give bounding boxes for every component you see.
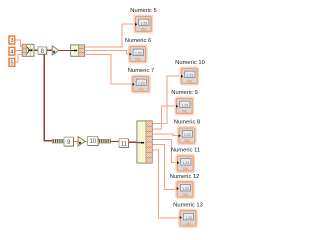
svg-text:10: 10 bbox=[89, 139, 96, 145]
svg-text:4: 4 bbox=[10, 49, 13, 55]
wire: unbundle out 1 to Numeric 5 bbox=[84, 24, 134, 47]
wire: probe 8 to triangle (dark red) bbox=[47, 49, 53, 51]
probe 9 bbox=[64, 137, 74, 146]
indicator Numeric 13 bbox=[173, 203, 203, 228]
svg-text:1.23: 1.23 bbox=[140, 22, 147, 26]
svg-text:DBL: DBL bbox=[184, 139, 190, 143]
wire: U2 row5 to Numeric 12 bbox=[152, 145, 176, 190]
svg-text:1.23: 1.23 bbox=[185, 216, 192, 220]
constant 4 bbox=[9, 47, 15, 55]
svg-text:1.23: 1.23 bbox=[181, 104, 188, 108]
svg-text:Numeric 12: Numeric 12 bbox=[170, 174, 200, 180]
indicator Numeric 12 bbox=[170, 174, 200, 199]
wire: rope cluster segment B bbox=[98, 139, 110, 143]
svg-text:11: 11 bbox=[121, 141, 128, 147]
wire: bundle output to probe 8 (cluster, dark red) bbox=[34, 49, 39, 51]
svg-text:1.23: 1.23 bbox=[135, 52, 142, 56]
wire: rope B to probe 11 (dark red) bbox=[111, 141, 120, 143]
triangle T2 (conversion) bbox=[78, 137, 85, 146]
wire: triangle to unbundle U1 (dark red) bbox=[59, 50, 71, 52]
constant 5 bbox=[9, 59, 15, 67]
wire: unbundle out 2 to Numeric 6 bbox=[84, 51, 128, 54]
svg-text:Numeric 10: Numeric 10 bbox=[175, 60, 205, 66]
bundle node B1 bbox=[22, 44, 34, 56]
constant 3 bbox=[9, 36, 15, 44]
svg-text:DBL: DBL bbox=[185, 222, 191, 226]
svg-text:DBL: DBL bbox=[182, 193, 188, 197]
wire: U2 row2 to Numeric 9 bbox=[152, 106, 175, 129]
svg-text:DBL: DBL bbox=[183, 167, 189, 171]
svg-text:Numeric 13: Numeric 13 bbox=[173, 203, 203, 209]
indicator Numeric 10 bbox=[175, 60, 205, 85]
svg-text:1.23: 1.23 bbox=[182, 161, 189, 165]
svg-text:Numeric 9: Numeric 9 bbox=[171, 90, 197, 96]
wire: U2 row4 to Numeric 11 bbox=[152, 139, 176, 162]
svg-text:1.23: 1.23 bbox=[184, 133, 191, 137]
svg-text:1.23: 1.23 bbox=[186, 74, 193, 78]
probe 8 bbox=[38, 47, 47, 55]
svg-text:DBL: DBL bbox=[187, 80, 193, 84]
wire: probe 9 to triangle T2 (orange scalar) bbox=[74, 140, 79, 142]
wire: unbundle out 3 to Numeric 7 bbox=[84, 54, 131, 84]
indicator Numeric 9 bbox=[171, 90, 197, 115]
svg-text:1.23: 1.23 bbox=[138, 82, 145, 86]
wire: U2 row1 to Numeric 10 bbox=[152, 76, 180, 123]
indicator Numeric 6 bbox=[125, 38, 151, 63]
indicator Numeric 5 bbox=[130, 8, 156, 33]
indicator Numeric 8 bbox=[174, 120, 200, 145]
wire: constant 3 to bundle input 1 bbox=[15, 40, 23, 46]
svg-text:Numeric 11: Numeric 11 bbox=[171, 148, 200, 154]
unbundle U2 (8 outputs) bbox=[137, 121, 152, 163]
wire: triangle T2 to probe 10 (orange scalar) bbox=[86, 140, 88, 142]
svg-text:Numeric 5: Numeric 5 bbox=[130, 8, 156, 14]
probe 10 bbox=[88, 137, 99, 146]
wire: U2 row3 to Numeric 8 bbox=[152, 134, 178, 135]
wire: probe 11 to unbundle U2 (dark red) bbox=[128, 141, 139, 143]
svg-text:5: 5 bbox=[10, 61, 13, 67]
svg-text:Numeric 6: Numeric 6 bbox=[125, 38, 151, 44]
wire: branch down from probe 8 to bottom chain (dark red) bbox=[44, 52, 52, 141]
svg-text:1.23: 1.23 bbox=[182, 187, 189, 191]
probe 11 bbox=[119, 139, 129, 148]
wire: constant 5 to bundle input 3 bbox=[15, 54, 23, 62]
unbundle U1 bbox=[71, 45, 85, 56]
wire: U2 row6 to Numeric 13 bbox=[152, 150, 179, 218]
svg-text:3: 3 bbox=[10, 38, 13, 44]
triangle T1 (conversion) bbox=[52, 46, 59, 55]
wire: constant 4 to bundle input 2 bbox=[15, 50, 23, 52]
indicator Numeric 7 bbox=[128, 68, 154, 93]
svg-text:DBL: DBL bbox=[138, 88, 144, 92]
svg-text:DBL: DBL bbox=[141, 28, 147, 32]
svg-text:Numeric 8: Numeric 8 bbox=[174, 120, 200, 126]
svg-text:Numeric 7: Numeric 7 bbox=[128, 68, 154, 74]
wire: rope cluster segment A bbox=[52, 139, 63, 143]
indicator Numeric 11 bbox=[171, 148, 200, 173]
svg-text:DBL: DBL bbox=[135, 58, 141, 62]
svg-text:DBL: DBL bbox=[182, 110, 188, 114]
